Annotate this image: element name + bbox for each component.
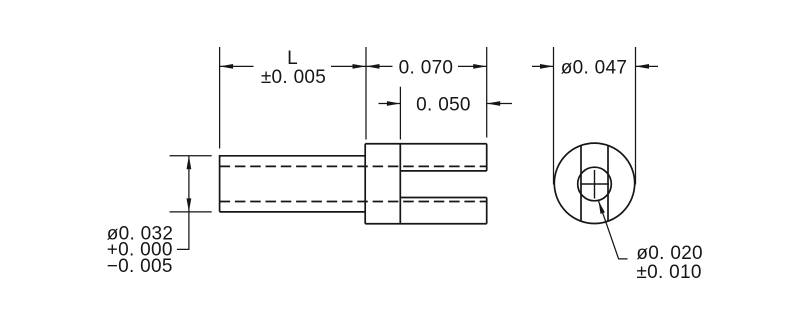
extension line shaft bottom	[170, 211, 212, 213]
extension line right end	[486, 47, 488, 138]
end view slot chord right	[607, 146, 609, 221]
arrowhead 0.070 left	[366, 64, 380, 69]
leader from 0.032 text to vertical dimension	[177, 212, 189, 250]
dimension line 0.047 right outside segment	[636, 65, 659, 67]
svg-text:−0. 005: −0. 005	[107, 256, 173, 277]
arrowhead bore leader	[599, 201, 605, 214]
hidden bore dashed line upper	[220, 165, 487, 167]
svg-text:0. 070: 0. 070	[399, 58, 454, 79]
leader line to 0.020 bore text	[599, 201, 628, 259]
end view inner bore circle	[578, 167, 612, 201]
extension line shaft top	[170, 155, 212, 157]
end view center cross vertical	[594, 170, 596, 199]
arrowhead 0.047 right	[636, 64, 650, 69]
side view shaft body outline	[220, 156, 366, 212]
end view outer circle	[554, 143, 634, 223]
hidden bore dashed line lower	[220, 201, 487, 203]
arrowhead 0.047 left	[540, 64, 554, 69]
end view center cross horizontal	[580, 183, 609, 185]
dimension line 0.047 left outside segment	[532, 65, 554, 67]
dimension line 0.050 right outside segment	[487, 103, 512, 105]
arrowhead 0.032 top	[187, 156, 192, 170]
dimension line L right segment	[331, 65, 366, 67]
extension line left end of shaft	[219, 47, 221, 149]
arrowhead 0.032 bottom	[187, 198, 192, 212]
arrowhead L left	[220, 64, 234, 69]
side view fork slot edges	[400, 144, 486, 224]
arrowhead 0.050 right	[487, 101, 501, 106]
dimension line L left segment	[220, 65, 254, 67]
side view collar outline	[365, 144, 487, 224]
extension line circle left tangent	[553, 47, 555, 185]
svg-text:L: L	[287, 48, 298, 69]
svg-text:0. 050: 0. 050	[416, 95, 471, 116]
dimension line 0.050 left outside segment	[379, 103, 401, 105]
extension line fork start	[399, 87, 401, 140]
arrowhead 0.050 left	[387, 101, 401, 106]
arrowhead 0.070 right	[473, 64, 487, 69]
extension line circle right tangent	[635, 47, 637, 185]
svg-text:±0. 005: ±0. 005	[261, 67, 326, 88]
dimension line 0.070 right segment	[458, 65, 487, 67]
extension line shoulder	[365, 47, 367, 140]
end view slot chord left	[580, 146, 582, 221]
svg-text:±0. 010: ±0. 010	[636, 262, 701, 283]
dimension line 0.070 left segment	[366, 65, 393, 67]
svg-text:ø0. 020: ø0. 020	[636, 243, 703, 264]
arrowhead L right	[353, 64, 367, 69]
svg-text:ø0. 047: ø0. 047	[561, 58, 628, 79]
vertical dimension line for 0.032	[188, 156, 190, 212]
